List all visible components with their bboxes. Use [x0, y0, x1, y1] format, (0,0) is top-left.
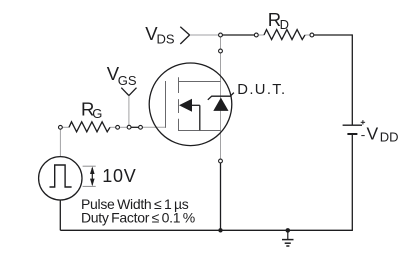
svg-text:Duty Factor ≤ 0.1 %: Duty Factor ≤ 0.1 % — [81, 209, 195, 225]
svg-text:GS: GS — [118, 73, 137, 88]
svg-text:DS: DS — [157, 32, 175, 47]
svg-text:G: G — [92, 106, 102, 121]
svg-text:10V: 10V — [102, 166, 136, 186]
svg-text:V: V — [367, 123, 379, 143]
svg-text:D: D — [280, 17, 289, 32]
svg-text:D.U.T.: D.U.T. — [237, 82, 286, 98]
svg-text:DD: DD — [380, 130, 399, 145]
